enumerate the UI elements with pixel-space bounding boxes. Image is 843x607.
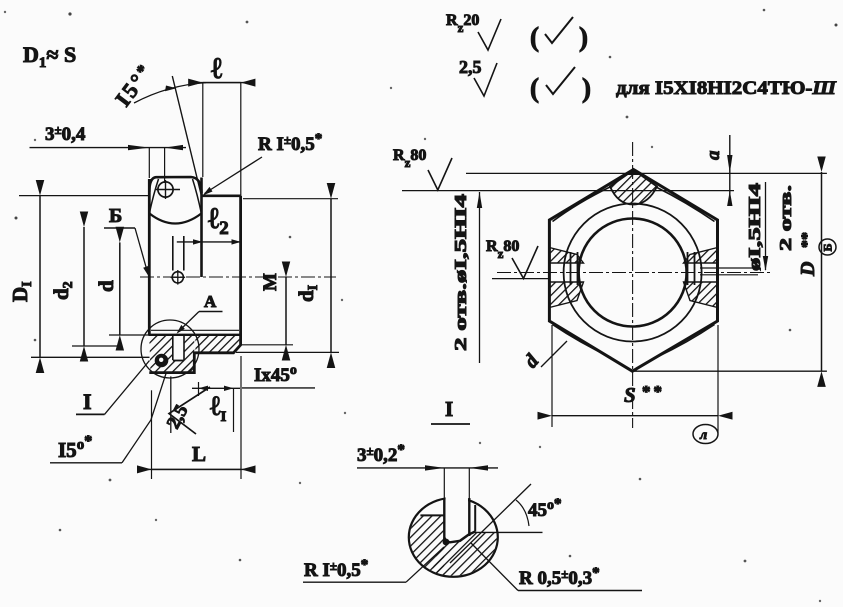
svg-text:**: ** [642,382,665,401]
svg-text:2 отв.øI,5HI4: 2 отв.øI,5HI4 [451,193,470,351]
svg-text:): ) [582,73,591,103]
svg-text:I: I [83,389,92,414]
svg-text:ℓ: ℓ [211,52,222,85]
svg-text:R I±0,5*: R I±0,5* [304,557,368,581]
svg-text:л: л [699,428,707,443]
svg-text:(: ( [530,22,539,52]
svg-text:øI,5HI4: øI,5HI4 [745,182,764,271]
svg-text:d: d [94,280,118,292]
svg-text:Б: Б [821,244,835,252]
svg-text:R 0,5±0,3*: R 0,5±0,3* [519,565,600,589]
svg-text:D: D [797,262,819,277]
svg-text:S: S [624,383,636,407]
svg-text:R I±0,5*: R I±0,5* [258,131,322,155]
svg-text:A: A [204,292,217,311]
svg-text:a: a [703,150,724,160]
svg-text:L: L [192,442,206,466]
svg-text:**: ** [799,232,816,248]
svg-text:3±0,4: 3±0,4 [45,122,86,145]
svg-text:2,5: 2,5 [459,57,482,77]
svg-text:): ) [579,22,588,52]
svg-text:I: I [445,397,453,421]
svg-text:2 отв.: 2 отв. [776,185,795,251]
svg-text:для I5XI8HI2C4TЮ-Ш: для I5XI8HI2C4TЮ-Ш [616,78,837,99]
svg-text:(: ( [530,73,539,103]
svg-text:M: M [260,273,281,291]
svg-text:Б: Б [109,205,122,227]
svg-text:D1≈ S: D1≈ S [23,42,76,71]
